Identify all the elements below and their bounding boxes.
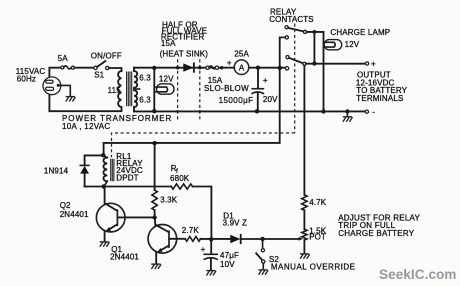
svg-text:SLO-BLOW: SLO-BLOW — [204, 84, 249, 93]
svg-text:47μF: 47μF — [220, 251, 239, 260]
svg-text:115: 115 — [108, 86, 122, 95]
svg-text:2N4401: 2N4401 — [110, 253, 139, 262]
svg-text:+: + — [371, 59, 376, 68]
svg-text:6.3: 6.3 — [139, 95, 151, 104]
svg-text:SeekIC.com: SeekIC.com — [379, 267, 457, 282]
svg-text:10A , 12VAC: 10A , 12VAC — [62, 122, 111, 131]
svg-text:2.7K: 2.7K — [182, 226, 200, 235]
svg-text:+: + — [263, 76, 268, 85]
svg-text:6.3: 6.3 — [139, 74, 151, 83]
svg-text:CHARGE BATTERY: CHARGE BATTERY — [338, 229, 415, 238]
svg-text:-: - — [372, 108, 375, 117]
svg-text:4.7K: 4.7K — [309, 198, 327, 207]
svg-text:S1: S1 — [94, 70, 104, 79]
svg-text:10V: 10V — [220, 260, 235, 269]
svg-text:ON/OFF: ON/OFF — [91, 51, 122, 60]
svg-text:POT: POT — [309, 232, 326, 241]
svg-text:60Hz: 60Hz — [17, 74, 36, 83]
svg-text:12V: 12V — [345, 40, 360, 49]
svg-text:Q2: Q2 — [60, 201, 71, 210]
svg-text:+: + — [227, 59, 232, 68]
svg-text:3.9V Z: 3.9V Z — [223, 218, 247, 227]
svg-text:20V: 20V — [263, 95, 278, 104]
svg-text:1N914: 1N914 — [44, 167, 69, 176]
svg-text:CHARGE LAMP: CHARGE LAMP — [330, 28, 390, 37]
svg-text:CONTACTS: CONTACTS — [269, 15, 314, 24]
svg-text:12V: 12V — [159, 75, 174, 84]
svg-text:3.3K: 3.3K — [160, 196, 178, 205]
svg-text:+: + — [201, 245, 206, 254]
svg-text:(HEAT SINK): (HEAT SINK) — [160, 50, 209, 59]
svg-text:DPDT: DPDT — [116, 173, 138, 182]
svg-text:A: A — [239, 63, 245, 72]
svg-text:680K: 680K — [170, 174, 190, 183]
svg-text:5A: 5A — [58, 54, 69, 63]
svg-text:15000μF: 15000μF — [219, 96, 254, 105]
svg-text:TERMINALS: TERMINALS — [356, 94, 403, 103]
svg-text:MANUAL OVERRIDE: MANUAL OVERRIDE — [271, 262, 356, 271]
svg-text:15A: 15A — [161, 39, 176, 48]
svg-text:2N4401: 2N4401 — [60, 210, 89, 219]
svg-text:25A: 25A — [234, 49, 249, 58]
